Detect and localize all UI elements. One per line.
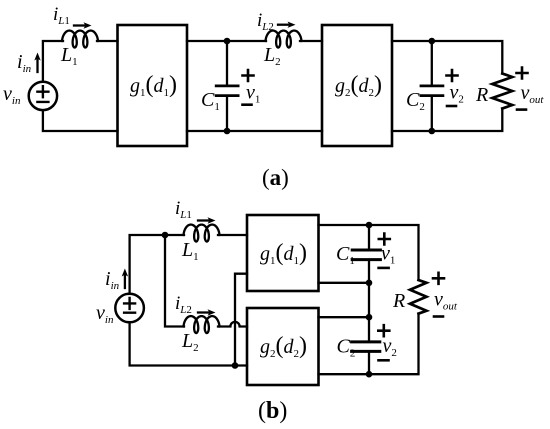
resistor R (b) [410,280,427,314]
svg-text:R: R [475,84,488,106]
wire: g2 right-bottom to R bottom (b) [319,314,419,375]
label v1 plus (a) [243,70,254,81]
svg-text:vout: vout [521,82,545,106]
node dot C2 bottom (a) [429,128,436,135]
label vout minus (a) [517,108,526,111]
capacitor C1 (b) [352,225,380,283]
node dot C2 top (b) [366,314,373,321]
svg-text:R: R [392,290,405,312]
wire: vin bottom rail to g2 (b) [130,323,247,365]
svg-text:g2(d2): g2(d2) [335,72,382,99]
node dot C1 bottom (b) [366,280,373,287]
svg-text:g1(d1): g1(d1) [130,72,177,99]
arrow iL1 (b) [198,217,216,223]
node dot C1 top (b) [366,222,373,229]
voltage source Vin (a) [29,82,57,110]
inductor L1 (b) [184,225,220,242]
svg-text:g2(d2): g2(d2) [260,333,307,360]
wire: bottom left (a) [43,111,118,131]
capacitor C2 (a) [421,41,443,131]
svg-text:vout: vout [434,289,458,313]
label vout plus (a) [517,68,528,79]
inductor L2 (b) [184,316,220,333]
wire: L2 to g2 (a) [300,40,322,42]
capacitor C1 (a) [216,41,238,131]
node dot C1 bottom (a) [224,128,231,135]
wire: g2 to top-right corner (a) [392,41,502,74]
label v1 plus (b) [379,234,390,245]
svg-text:(b): (b) [258,398,287,424]
svg-text:C2: C2 [406,89,425,113]
svg-text:C1: C1 [336,243,355,267]
svg-text:vin: vin [3,83,21,107]
svg-text:C2: C2 [337,336,356,360]
box g2 (a) [322,25,392,146]
arrow iin (a) [34,53,40,73]
label v2 minus (b) [379,359,389,362]
svg-text:iL2: iL2 [257,10,274,33]
box g1 (b) [247,215,319,291]
capacitor C2 (b) [352,317,380,374]
wire: L2 to g2 with hop over vertical (b) [218,322,247,327]
svg-text:v2: v2 [450,82,464,106]
label vout plus (b) [433,273,444,284]
label v2 plus (b) [378,325,389,336]
svg-text:v1: v1 [381,243,395,267]
arrow iin (b) [122,269,128,289]
wire: g1 to L2 with C1 node (a) [187,40,266,42]
label vout minus (b) [434,315,443,318]
svg-text:iL2: iL2 [175,293,192,316]
node dot C2 bottom (b) [366,371,373,378]
node dot C2 top (a) [429,38,436,45]
label v2 minus (a) [447,105,456,108]
wire: bottom mid (a) [187,130,322,132]
svg-text:vin: vin [96,302,114,326]
wire: g1 right-bottom to C1 (b) [319,282,370,284]
svg-text:v1: v1 [246,82,260,106]
node dot bottom junction (b) [232,362,239,369]
wire: vin top to L1 (a) [43,41,63,81]
node dot C1 top (a) [224,38,231,45]
wire: g1 lower-left link down to bottom rail (b) [235,274,247,366]
voltage source Vin (b) [115,294,144,323]
svg-text:(a): (a) [262,165,289,190]
svg-text:g1(d1): g1(d1) [260,240,307,267]
svg-text:iL1: iL1 [175,198,192,221]
svg-text:iL1: iL1 [53,4,70,27]
wire: link C1 bottom to C2 top (b) [368,283,370,317]
arrow iL2 (b) [198,309,216,315]
node dot junction top (b) [162,232,169,239]
wire: vin top rail to L1 (b) [130,235,184,293]
wire: R bottom to g2 (a) [392,109,502,132]
svg-text:iin: iin [105,268,120,292]
svg-text:v2: v2 [383,335,397,359]
resistor R (a) [492,74,512,109]
label v1 minus (a) [243,103,252,106]
box g1 (a) [118,25,188,146]
wire: L1 to g1 (a) [97,40,118,42]
arrow iL2 (a) [278,22,296,28]
svg-text:C1: C1 [201,89,220,113]
wire: branch junction down to L2 (b) [165,235,184,327]
wire: g1 right-top to R corner (b) [319,225,419,280]
wire: g2 right-top to C2 (b) [319,316,370,318]
wire: L1 to g1 (b) [218,234,247,236]
label v2 plus (a) [447,70,458,81]
arrow iL1 (a) [74,22,92,28]
label v1 minus (b) [379,267,389,270]
box g2 (b) [247,308,319,385]
inductor L1 (a) [62,31,98,48]
inductor L2 (a) [266,31,302,48]
svg-text:iin: iin [17,51,32,75]
